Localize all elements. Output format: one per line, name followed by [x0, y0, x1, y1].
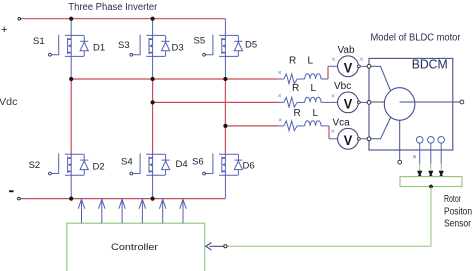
svg-text:V: V	[344, 132, 353, 148]
svg-text:V: V	[344, 96, 353, 112]
svg-text:Vca: Vca	[333, 118, 351, 129]
svg-text:D1: D1	[93, 43, 105, 54]
svg-text:Positon: Positon	[444, 206, 472, 217]
svg-text:R: R	[294, 108, 301, 119]
svg-text:S6: S6	[192, 157, 204, 168]
svg-text:V: V	[344, 59, 353, 75]
svg-text:Sensor: Sensor	[444, 219, 472, 230]
svg-text:S3: S3	[118, 40, 130, 51]
svg-text:R: R	[289, 56, 296, 67]
svg-text:L: L	[311, 83, 317, 94]
svg-text:D2: D2	[93, 162, 105, 173]
svg-text:S5: S5	[194, 36, 206, 47]
svg-text:Vab: Vab	[338, 45, 355, 56]
svg-text:Three Phase Inverter: Three Phase Inverter	[68, 2, 158, 13]
svg-text:S4: S4	[121, 157, 133, 168]
svg-text:S2: S2	[29, 160, 41, 171]
svg-text:Vbc: Vbc	[334, 81, 351, 92]
svg-text:D6: D6	[243, 161, 255, 172]
svg-text:BDCM: BDCM	[412, 57, 448, 71]
svg-text:L: L	[308, 56, 314, 67]
svg-text:Vdc: Vdc	[0, 96, 18, 108]
svg-text:D5: D5	[245, 40, 257, 51]
svg-text:Model of BLDC motor: Model of BLDC motor	[371, 33, 462, 44]
svg-text:R: R	[292, 83, 299, 94]
svg-text:Controller: Controller	[111, 242, 158, 253]
svg-text:D3: D3	[172, 43, 184, 54]
svg-text:+: +	[1, 24, 7, 36]
svg-text:Rotor: Rotor	[444, 194, 461, 205]
svg-text:L: L	[313, 108, 319, 119]
svg-text:S1: S1	[33, 36, 45, 47]
svg-text:D4: D4	[176, 159, 188, 170]
